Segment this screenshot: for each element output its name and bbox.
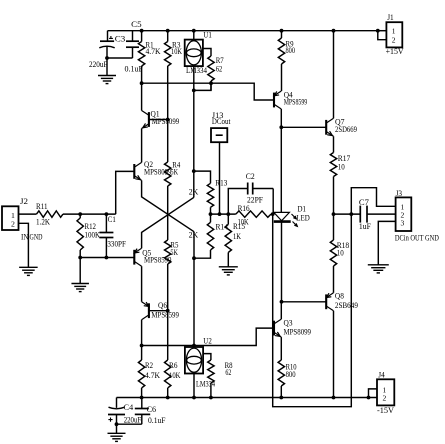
svg-text:Q8: Q8 <box>335 292 344 301</box>
svg-text:1K: 1K <box>233 232 241 241</box>
svg-text:MPS8599: MPS8599 <box>151 310 179 319</box>
svg-text:220uF: 220uF <box>89 60 108 69</box>
ground (J3) <box>368 265 389 273</box>
svg-text:R6: R6 <box>169 361 178 370</box>
connector J2 input <box>2 197 43 267</box>
wire Q4/Q7 node to D1 <box>280 127 282 212</box>
svg-text:+15V: +15V <box>386 47 404 56</box>
svg-text:J2: J2 <box>20 197 28 206</box>
wire output node <box>332 212 396 216</box>
svg-text:2: 2 <box>392 36 396 45</box>
svg-text:800: 800 <box>286 370 296 379</box>
svg-text:DCout: DCout <box>212 117 231 126</box>
transistor Q2 MPS8099 <box>134 129 171 181</box>
resistor R18 10 <box>330 214 349 293</box>
capacitor C5 0.1uF <box>125 20 144 73</box>
svg-text:DCin OUT GND: DCin OUT GND <box>395 234 439 243</box>
svg-text:330PF: 330PF <box>107 240 126 249</box>
junctions on -15V rail <box>140 396 371 400</box>
label 2K upper <box>189 188 199 197</box>
resistor R17 10 <box>330 136 350 214</box>
svg-text:220uF: 220uF <box>124 416 142 425</box>
svg-text:100K: 100K <box>85 231 101 240</box>
capacitor C3 220uF <box>89 31 125 69</box>
wire ground bus to Q5 base <box>78 256 134 260</box>
ground (C3/C5) <box>98 58 116 84</box>
resistor R5 5K <box>165 240 179 311</box>
resistor R16 10K <box>236 204 273 227</box>
svg-text:R15: R15 <box>233 222 245 231</box>
wire -15V bottom rail <box>117 397 378 399</box>
resistor R2 4.7K <box>138 346 160 398</box>
svg-text:LM334: LM334 <box>186 66 207 75</box>
wire lower corner to U2 vertical <box>192 232 196 346</box>
resistor R10 800 <box>278 337 297 397</box>
wire U1 to upper corner vertical <box>192 90 196 197</box>
resistor R4 5K <box>165 120 181 187</box>
svg-text:R11: R11 <box>36 202 48 211</box>
svg-text:62: 62 <box>225 368 231 377</box>
resistor R8 62 <box>203 354 233 398</box>
svg-text:0.1uF: 0.1uF <box>125 64 144 73</box>
label 2K lower <box>189 231 199 240</box>
svg-text:2K: 2K <box>189 188 199 197</box>
transistor Q3 MPS8099 <box>274 302 311 337</box>
wire Q2 collector diagonal to lower corner <box>142 180 194 231</box>
connector J13 DCout testpoint <box>211 111 231 214</box>
wire C3-C5 bottoms <box>105 56 132 60</box>
capacitor C6 0.1uF <box>135 398 166 426</box>
svg-text:U1: U1 <box>203 30 212 39</box>
svg-text:MPS8099: MPS8099 <box>152 117 180 126</box>
svg-text:U2: U2 <box>203 336 212 345</box>
svg-text:J4: J4 <box>378 371 385 380</box>
svg-text:2SD669: 2SD669 <box>335 125 357 134</box>
wire R4-R5 link <box>167 186 169 240</box>
svg-text:-15V: -15V <box>377 406 394 415</box>
LED D1 <box>274 204 310 301</box>
wire J3 pin3 to ground <box>378 221 395 264</box>
current source U2 LM334 <box>185 336 215 397</box>
capacitor C1 330PF <box>99 214 126 257</box>
wire D1 cathode to Q8 base <box>280 300 327 304</box>
svg-text:5K: 5K <box>170 248 178 257</box>
svg-text:1: 1 <box>392 27 396 36</box>
connector J4 -15V <box>369 371 395 415</box>
svg-text:J1: J1 <box>387 13 394 22</box>
svg-text:D1: D1 <box>298 204 307 213</box>
wire Q6 collector to Q3 base <box>140 320 274 348</box>
svg-text:C5: C5 <box>131 20 142 29</box>
connector J3 <box>395 189 439 243</box>
svg-text:1.2K: 1.2K <box>36 218 50 227</box>
svg-text:MPS8099: MPS8099 <box>144 167 172 176</box>
svg-text:0.1uF: 0.1uF <box>148 416 166 425</box>
svg-text:LED: LED <box>296 213 310 222</box>
svg-text:R16: R16 <box>238 204 250 213</box>
svg-text:10: 10 <box>337 248 344 257</box>
transistor Q8 2SB649 <box>326 292 358 398</box>
wire +15V top rail <box>108 30 378 32</box>
svg-text:10K: 10K <box>171 47 182 56</box>
svg-text:Q3: Q3 <box>284 318 293 327</box>
svg-text:10: 10 <box>338 163 345 172</box>
wire input node <box>63 171 134 216</box>
wire upper corner diagonal to Q5 emitter <box>142 197 194 248</box>
current source U1 LM334 <box>185 29 212 91</box>
svg-text:GND: GND <box>30 233 43 242</box>
ground (R12) <box>71 258 89 292</box>
wire feedback node <box>209 212 236 216</box>
ground (R15) <box>219 267 238 275</box>
resistor R3 10K <box>165 29 183 120</box>
svg-text:2SB649: 2SB649 <box>335 301 358 310</box>
resistor R15 1K <box>225 214 245 267</box>
svg-text:J3: J3 <box>396 189 403 198</box>
svg-text:C2: C2 <box>246 172 255 181</box>
transistor Q7 2SD669 <box>326 29 357 137</box>
transistor Q4 MPS8599 <box>274 91 307 110</box>
transistor Q6 MPS8599 <box>142 266 179 320</box>
ground (C4/C6) <box>108 424 126 441</box>
resistor R13 <box>194 171 228 214</box>
wire feedback loop <box>271 212 351 407</box>
resistor R11 1.2K <box>36 202 63 227</box>
resistor R12 100K <box>77 214 100 257</box>
capacitor C7 1uF <box>359 198 372 231</box>
capacitor C2 22PF <box>228 172 273 214</box>
wire J3 pin1 loop <box>351 188 395 214</box>
svg-text:Q6: Q6 <box>158 301 167 310</box>
wire Q4 collector to Q7 base <box>279 109 326 129</box>
wire C4-C6 bottoms <box>115 422 142 426</box>
svg-text:3: 3 <box>401 219 405 228</box>
ground (J2) <box>19 267 38 275</box>
svg-text:C1: C1 <box>108 215 116 224</box>
svg-text:C3: C3 <box>115 34 126 43</box>
svg-text:4.7K: 4.7K <box>146 47 161 56</box>
svg-text:IN: IN <box>21 233 29 242</box>
svg-text:2: 2 <box>383 394 387 403</box>
resistor R14 <box>194 214 228 258</box>
wire R1 bottom to Q4 base <box>140 81 274 100</box>
svg-text:LM334: LM334 <box>196 380 215 389</box>
resistor R9 800 <box>278 29 295 91</box>
transistor Q5 MPS8599 <box>134 248 171 266</box>
resistor R7 62 <box>203 49 224 91</box>
svg-text:C6: C6 <box>147 405 157 414</box>
svg-text:2: 2 <box>11 219 15 228</box>
svg-text:800: 800 <box>286 46 296 55</box>
svg-text:R13: R13 <box>215 178 227 187</box>
resistor R1 4.7K <box>138 29 160 83</box>
svg-text:5K: 5K <box>171 167 179 176</box>
svg-text:C4: C4 <box>124 403 134 412</box>
wire U1/R7 bottom junction <box>192 81 213 92</box>
svg-text:1uF: 1uF <box>359 222 372 231</box>
svg-text:C7: C7 <box>359 198 369 207</box>
svg-text:62: 62 <box>216 65 223 74</box>
capacitor C4 220uF <box>108 398 142 425</box>
svg-text:10K: 10K <box>169 371 181 380</box>
transistor Q1 MPS8099 <box>142 83 180 128</box>
svg-text:MPS8599: MPS8599 <box>284 98 308 107</box>
svg-text:MPS8099: MPS8099 <box>284 328 312 337</box>
svg-text:R2: R2 <box>145 361 153 370</box>
svg-text:4.7K: 4.7K <box>145 371 160 380</box>
resistor R6 10K <box>165 311 181 398</box>
connector J1 +15V <box>376 13 404 56</box>
